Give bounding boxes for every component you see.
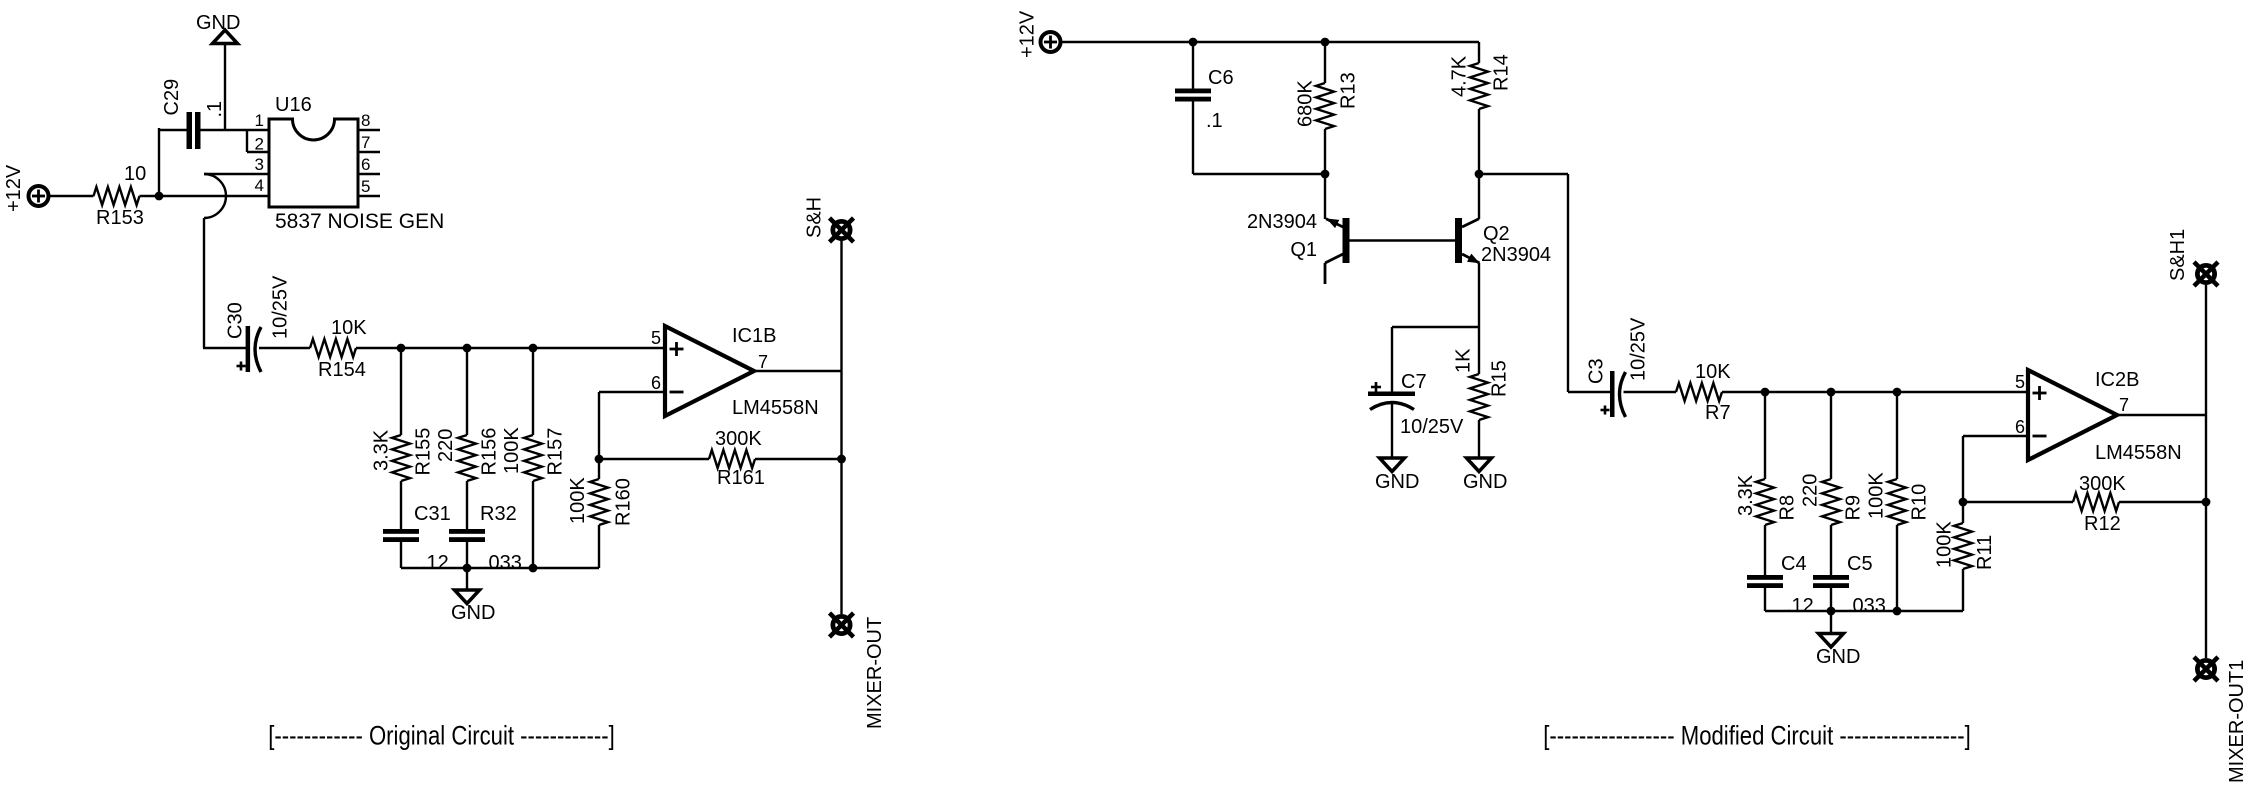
resistor R8 xyxy=(1756,479,1774,525)
wire C31 to bottom rail xyxy=(400,542,402,568)
svg-text:C31: C31 xyxy=(414,503,451,525)
svg-text:300K: 300K xyxy=(715,428,762,450)
svg-text:GND: GND xyxy=(196,12,240,34)
capacitor C6 xyxy=(1175,89,1211,94)
svg-text:C4: C4 xyxy=(1781,553,1807,575)
capacitor C7 electrolytic xyxy=(1368,392,1415,397)
resistor R157 xyxy=(524,435,542,481)
node R13 bottom Q1 emitter net xyxy=(1321,170,1330,179)
wire pin6 horizontal xyxy=(599,391,667,393)
svg-text:3.3K: 3.3K xyxy=(371,429,393,471)
svg-text:R155: R155 xyxy=(413,428,435,476)
pin 6 stub xyxy=(358,173,380,175)
svg-text:5: 5 xyxy=(651,328,661,348)
node R160/feedback xyxy=(595,455,604,464)
svg-text:5837 NOISE GEN: 5837 NOISE GEN xyxy=(275,210,444,233)
svg-text:C7: C7 xyxy=(1401,371,1427,393)
svg-text:R156: R156 xyxy=(479,428,501,476)
pin 5 stub xyxy=(358,195,380,197)
svg-text:4: 4 xyxy=(255,176,264,195)
svg-text:.033: .033 xyxy=(1847,595,1886,617)
svg-text:C29: C29 xyxy=(161,79,183,116)
minus input marker xyxy=(670,391,684,394)
svg-text:GND: GND xyxy=(1375,471,1419,493)
svg-text:220: 220 xyxy=(1800,474,1822,507)
connector S&H xyxy=(833,221,850,238)
wire R155 drop xyxy=(400,348,402,435)
wire C6 to R13 bottom xyxy=(1193,173,1325,175)
wire feedback to R12 xyxy=(1963,501,2073,503)
wire C6 down xyxy=(1192,102,1194,175)
wire R157 drop xyxy=(532,348,534,435)
svg-text:R8: R8 xyxy=(1777,495,1799,521)
connector MIXER-OUT1 xyxy=(2197,660,2214,677)
wire R9 to C5 xyxy=(1830,525,1832,575)
svg-text:LM4558N: LM4558N xyxy=(732,397,819,419)
svg-text:680K: 680K xyxy=(1295,80,1317,127)
resistor R161 xyxy=(709,450,755,468)
wire to GND net2 xyxy=(1830,611,1832,634)
svg-text:10K: 10K xyxy=(331,317,367,339)
wire R15 to GND xyxy=(1478,420,1480,458)
svg-text:100K: 100K xyxy=(567,477,589,524)
svg-text:MIXER-OUT1: MIXER-OUT1 xyxy=(2226,660,2248,783)
svg-text:[----------------- Modified Ci: [----------------- Modified Circuit ----… xyxy=(1543,722,1971,752)
wire R153 to U16 pin 4 xyxy=(140,195,270,197)
wire C3 branch down xyxy=(1567,174,1569,392)
resistor R15 xyxy=(1470,374,1488,420)
node R10 top xyxy=(1893,388,1902,397)
wire R8 to C4 xyxy=(1764,525,1766,575)
svg-text:.033: .033 xyxy=(483,552,522,574)
wire R9 drop xyxy=(1830,392,1832,479)
wire R157 to bottom rail xyxy=(532,481,534,568)
wire R154 to op-amp pin5 xyxy=(356,347,667,349)
svg-text:LM4558N: LM4558N xyxy=(2095,442,2182,464)
svg-text:C5: C5 xyxy=(1847,553,1873,575)
svg-text:GND: GND xyxy=(1463,471,1507,493)
svg-text:.12: .12 xyxy=(1786,595,1814,617)
wire GND to pin1 net xyxy=(224,44,226,132)
wire feedback to R161 xyxy=(599,458,709,460)
wire C4 to bottom rail xyxy=(1764,588,1766,611)
node bottom rail C5 xyxy=(1827,607,1836,616)
ground GND R15 xyxy=(1467,458,1492,472)
wire C5 to bottom rail xyxy=(1830,588,1832,611)
wire R155 to C31 xyxy=(400,481,402,529)
op-amp IC2B xyxy=(2028,370,2117,460)
wire rail to R14 xyxy=(1478,42,1480,63)
svg-text:+12V: +12V xyxy=(1017,10,1039,58)
wire pin6 right xyxy=(1963,435,2030,437)
svg-text:.1: .1 xyxy=(1206,110,1223,132)
resistor R14 xyxy=(1470,63,1488,109)
wire R14 to collector node xyxy=(1478,109,1480,174)
svg-text:R7: R7 xyxy=(1705,402,1731,424)
svg-text:.1: .1 xyxy=(204,101,226,118)
svg-text:[------------ Original Circuit: [------------ Original Circuit ---------… xyxy=(268,722,614,752)
transistor Q2 xyxy=(1455,218,1462,263)
minus input marker right xyxy=(2033,435,2047,438)
svg-text:6: 6 xyxy=(651,373,661,393)
resistor R10 xyxy=(1888,479,1906,525)
wire hop arc over pin4 wire xyxy=(204,174,226,218)
svg-text:MIXER-OUT: MIXER-OUT xyxy=(864,617,886,729)
node output bus feedback xyxy=(837,455,846,464)
resistor R154 xyxy=(310,339,356,357)
capacitor C30 electrolytic xyxy=(246,326,251,372)
svg-text:+12V: +12V xyxy=(3,164,25,212)
svg-text:100K: 100K xyxy=(1866,472,1888,519)
resistor R7 xyxy=(1676,383,1722,401)
svg-text:Q2: Q2 xyxy=(1483,223,1510,245)
svg-text:R14: R14 xyxy=(1491,54,1513,91)
power +12V supply symbol xyxy=(29,186,49,206)
wire node to C3 branch xyxy=(1479,173,1568,175)
svg-text:10/25V: 10/25V xyxy=(1628,317,1650,381)
svg-text:10/25V: 10/25V xyxy=(270,275,292,339)
svg-text:R15: R15 xyxy=(1489,360,1511,397)
node rail R13 xyxy=(1321,38,1330,47)
capacitor C31 xyxy=(383,529,419,534)
node bottom rail R157 xyxy=(529,564,538,573)
svg-text:S&H: S&H xyxy=(804,197,826,238)
node output bus feedback right xyxy=(2202,498,2211,507)
wire junction up to C29 level xyxy=(158,128,160,196)
resistor R9 xyxy=(1822,479,1840,525)
svg-text:R13: R13 xyxy=(1338,72,1360,109)
svg-text:C3: C3 xyxy=(1586,358,1608,384)
svg-text:2: 2 xyxy=(255,135,264,154)
svg-text:2N3904: 2N3904 xyxy=(1247,211,1317,233)
bottom rail left network xyxy=(401,567,599,569)
wire pin6 down to R160 node xyxy=(598,392,600,459)
svg-text:Q1: Q1 xyxy=(1290,239,1317,261)
svg-text:5: 5 xyxy=(361,177,370,196)
ground GND C7 xyxy=(1380,458,1405,472)
pin 7 stub xyxy=(358,151,380,153)
wire C29 right plate to U16 pin 1 xyxy=(200,129,269,131)
wire C3 to R7 xyxy=(1624,391,1677,393)
node bottom rail R10 xyxy=(1893,607,1902,616)
svg-text:.12: .12 xyxy=(421,552,449,574)
resistor R160 xyxy=(590,479,608,525)
svg-text:10K: 10K xyxy=(1695,361,1731,383)
svg-text:6: 6 xyxy=(2015,417,2025,437)
wire R160 to bottom rail xyxy=(598,525,600,568)
svg-text:R12: R12 xyxy=(2084,513,2121,535)
svg-text:7: 7 xyxy=(2119,395,2129,415)
node R156 top xyxy=(463,344,472,353)
resistor R156 xyxy=(458,435,476,481)
svg-text:R161: R161 xyxy=(717,467,765,489)
svg-text:6: 6 xyxy=(361,155,370,174)
svg-text:R153: R153 xyxy=(96,207,144,229)
wire corner to C30 plate xyxy=(203,347,246,349)
capacitor C5 xyxy=(1813,575,1849,580)
wire C7 to GND xyxy=(1391,403,1393,458)
connector MIXER-OUT xyxy=(833,616,850,633)
wire R11 to bottom rail xyxy=(1962,569,1964,611)
resistor R155 xyxy=(392,435,410,481)
power +12V supply symbol right xyxy=(1041,32,1061,52)
node bottom rail R32 xyxy=(463,564,472,573)
svg-text:R32: R32 xyxy=(480,503,517,525)
wire R10 drop xyxy=(1896,392,1898,479)
wire rail to R13 xyxy=(1324,42,1326,83)
svg-text:8: 8 xyxy=(361,111,370,130)
svg-text:10/25V: 10/25V xyxy=(1400,416,1464,438)
node R9 top xyxy=(1827,388,1836,397)
wire R12 to output bus xyxy=(2119,501,2206,503)
wire R7 to op-amp pin5 xyxy=(1722,391,2030,393)
wire rail to C6 xyxy=(1192,42,1194,89)
resistor R11 xyxy=(1954,523,1972,569)
svg-text:C6: C6 xyxy=(1208,67,1234,89)
output bus vertical xyxy=(840,240,842,614)
wire Q1 base to Q2 base xyxy=(1350,239,1456,241)
node R14 Q2 collector xyxy=(1475,170,1484,179)
plus input marker right xyxy=(2033,392,2047,395)
connector S&H1 xyxy=(2197,265,2214,282)
resistor R13 xyxy=(1316,83,1334,129)
wire op-amp output xyxy=(754,370,842,372)
svg-text:3: 3 xyxy=(255,155,264,174)
node R157 top xyxy=(529,344,538,353)
node rail C6 xyxy=(1189,38,1198,47)
svg-text:220: 220 xyxy=(435,429,457,462)
node junction R153/C29/pin4 xyxy=(155,192,164,201)
wire R10 to bottom rail xyxy=(1896,525,1898,611)
svg-text:R10: R10 xyxy=(1909,484,1931,521)
wire R32 to bottom rail xyxy=(466,542,468,568)
wire C30 to R154 xyxy=(259,347,310,349)
wire to C29 left plate xyxy=(158,129,187,131)
svg-text:IC2B: IC2B xyxy=(2095,369,2139,391)
wire pin 2 loop horizontal xyxy=(247,151,269,153)
ground GND network symbol xyxy=(455,590,480,604)
svg-text:10: 10 xyxy=(124,163,146,185)
capacitor C4 xyxy=(1747,575,1783,580)
output bus vertical right xyxy=(2205,285,2207,658)
wire node to R11 xyxy=(1962,502,1964,523)
svg-text:100K: 100K xyxy=(1934,521,1956,568)
resistor R12 xyxy=(2073,493,2119,511)
wire pin3 arc down to C30 xyxy=(203,218,205,348)
op-amp IC1B xyxy=(665,326,754,416)
wire emitter to C7 xyxy=(1392,326,1479,328)
wire R156 drop xyxy=(466,348,468,435)
svg-text:100K: 100K xyxy=(501,427,523,474)
svg-text:U16: U16 xyxy=(275,94,312,116)
svg-text:R154: R154 xyxy=(318,359,366,381)
svg-text:IC1B: IC1B xyxy=(732,325,776,347)
wire R8 drop xyxy=(1764,392,1766,479)
svg-text:1K: 1K xyxy=(1453,348,1475,373)
wire +12V rail xyxy=(1061,41,1480,43)
wire R161 to output bus xyxy=(755,458,842,460)
svg-text:R157: R157 xyxy=(545,428,567,476)
node R155 top xyxy=(397,344,406,353)
transistor Q1 xyxy=(1343,218,1350,263)
svg-text:GND: GND xyxy=(1816,646,1860,668)
capacitor C29 xyxy=(187,112,193,149)
svg-text:GND: GND xyxy=(451,602,495,624)
pin 8 stub xyxy=(358,129,380,131)
node R11/feedback xyxy=(1959,498,1968,507)
wire pin6 down to R11 node xyxy=(1962,436,1964,502)
svg-text:7: 7 xyxy=(361,133,370,152)
resistor R153 xyxy=(94,187,140,205)
svg-text:2N3904: 2N3904 xyxy=(1481,244,1551,266)
wire pin 3 stub xyxy=(204,173,269,175)
wire node to R160 xyxy=(598,459,600,479)
capacitor R32 xyxy=(449,529,485,534)
plus input marker xyxy=(670,348,684,351)
capacitor C3 electrolytic xyxy=(1610,371,1615,417)
svg-text:R9: R9 xyxy=(1843,495,1865,521)
svg-text:4.7K: 4.7K xyxy=(1449,55,1471,97)
svg-text:5: 5 xyxy=(2015,372,2025,392)
wire +12V to R153 xyxy=(49,195,94,197)
IC U16 5837 noise generator body xyxy=(269,119,358,207)
svg-text:R160: R160 xyxy=(613,478,635,526)
wire C7 top xyxy=(1391,327,1393,392)
ground GND top symbol xyxy=(213,30,238,44)
wire pin 2 loop vertical xyxy=(246,130,248,152)
bottom rail right network xyxy=(1765,610,1963,612)
svg-text:300K: 300K xyxy=(2079,473,2126,495)
svg-text:1: 1 xyxy=(255,111,264,130)
wire node down to Q1 emitter xyxy=(1324,174,1326,219)
svg-text:C30: C30 xyxy=(225,302,247,339)
svg-text:3.3K: 3.3K xyxy=(1735,474,1757,516)
ground GND network right xyxy=(1819,634,1844,648)
node R8 top xyxy=(1761,388,1770,397)
wire R13 down to node xyxy=(1324,129,1326,174)
wire to GND net1 xyxy=(466,568,468,590)
wire R156 to R32 xyxy=(466,481,468,529)
wire op-amp output right xyxy=(2117,414,2206,416)
wire Q2 emitter down xyxy=(1478,263,1480,374)
svg-text:S&H1: S&H1 xyxy=(2167,229,2189,281)
wire Q2 collector up xyxy=(1478,174,1480,219)
svg-text:7: 7 xyxy=(758,352,768,372)
svg-text:R11: R11 xyxy=(1974,535,1996,570)
wire to C3 plate xyxy=(1568,391,1610,393)
